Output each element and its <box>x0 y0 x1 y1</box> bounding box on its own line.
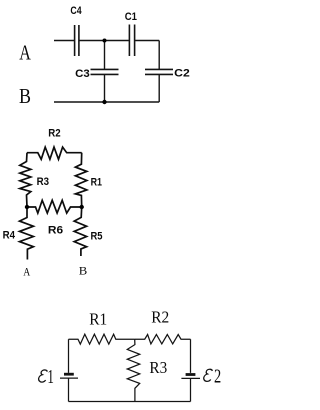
svg-text:C2: C2 <box>174 68 190 80</box>
svg-text:R6: R6 <box>48 224 63 236</box>
svg-text:2: 2 <box>214 366 221 388</box>
svg-text:C4: C4 <box>70 5 82 17</box>
svg-text:B: B <box>19 84 31 108</box>
svg-text:R3: R3 <box>37 176 49 188</box>
svg-text:R2: R2 <box>48 127 60 139</box>
svg-text:R1: R1 <box>91 176 102 188</box>
svg-text:R3: R3 <box>149 358 167 377</box>
svg-text:A: A <box>23 266 31 278</box>
svg-text:R5: R5 <box>91 231 103 243</box>
svg-text:C3: C3 <box>75 68 90 80</box>
svg-text:R4: R4 <box>3 230 16 242</box>
svg-text:R2: R2 <box>151 308 169 327</box>
svg-text:A: A <box>19 40 31 64</box>
svg-text:C1: C1 <box>125 11 137 23</box>
svg-text:B: B <box>79 266 88 278</box>
svg-text:R1: R1 <box>89 309 107 328</box>
svg-text:1: 1 <box>47 366 54 388</box>
